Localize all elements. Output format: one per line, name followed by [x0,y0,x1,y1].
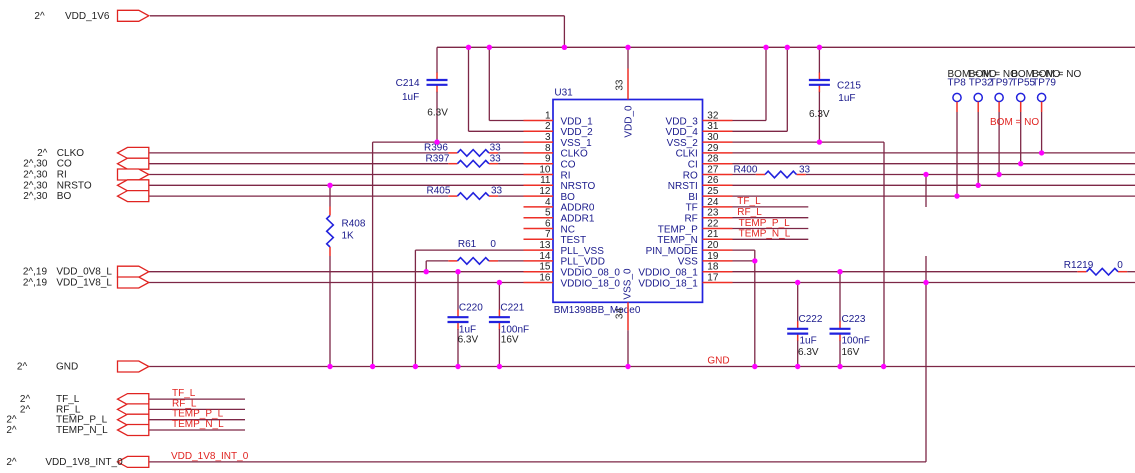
svg-text:TEMP_N_L: TEMP_N_L [56,425,108,436]
svg-text:24: 24 [707,197,719,208]
svg-text:5: 5 [545,208,551,219]
svg-text:VDDIO_08_1: VDDIO_08_1 [638,268,698,279]
svg-text:PLL_VSS: PLL_VSS [561,246,605,257]
svg-text:VDD_1V8_INT_0: VDD_1V8_INT_0 [171,451,249,462]
svg-text:R400: R400 [734,165,758,176]
svg-text:31: 31 [707,121,719,132]
svg-text:1: 1 [545,110,551,121]
svg-text:BO: BO [57,191,72,202]
svg-text:R405: R405 [427,186,451,197]
svg-text:1K: 1K [342,230,355,241]
svg-text:TF: TF [686,203,698,214]
svg-text:CLKO: CLKO [561,149,588,160]
svg-text:RI: RI [561,170,571,181]
svg-text:VDD_1V6: VDD_1V6 [65,11,110,22]
svg-text:VDD_4: VDD_4 [666,127,699,138]
svg-text:RF: RF [684,214,697,225]
svg-text:VDDIO_08_0: VDDIO_08_0 [561,268,621,279]
svg-text:0: 0 [490,239,496,250]
svg-text:ADDR0: ADDR0 [561,203,595,214]
svg-text:28: 28 [707,154,719,165]
svg-text:TEMP_N_L: TEMP_N_L [172,419,224,430]
svg-text:NRSTO: NRSTO [561,181,596,192]
svg-text:2^: 2^ [6,457,17,468]
svg-text:VDDIO_18_1: VDDIO_18_1 [638,278,698,289]
svg-text:10: 10 [539,164,551,175]
svg-text:6: 6 [545,218,551,229]
svg-text:19: 19 [707,251,719,262]
svg-text:2^,19: 2^,19 [23,267,48,278]
svg-text:26: 26 [707,175,719,186]
svg-text:TEST: TEST [561,235,587,246]
svg-text:C214: C214 [396,78,420,89]
svg-text:1uF: 1uF [402,92,419,103]
svg-text:16V: 16V [501,335,519,346]
svg-text:C220: C220 [459,303,483,314]
svg-text:2^,30: 2^,30 [23,159,48,170]
svg-text:2^,30: 2^,30 [23,191,48,202]
svg-text:33: 33 [491,186,503,197]
svg-text:4: 4 [545,197,551,208]
svg-text:VSS_2: VSS_2 [667,138,699,149]
svg-text:2^: 2^ [6,425,17,436]
svg-text:RO: RO [683,170,698,181]
svg-text:TEMP_N: TEMP_N [657,235,698,246]
svg-text:CLKO: CLKO [57,148,84,159]
svg-text:8: 8 [545,143,551,154]
svg-text:1uF: 1uF [459,324,476,335]
svg-text:PIN_MODE: PIN_MODE [646,246,699,257]
svg-text:33: 33 [799,165,811,176]
svg-text:BOM = NO: BOM = NO [990,117,1039,128]
svg-text:11: 11 [540,175,551,186]
svg-text:13: 13 [539,240,551,251]
svg-text:100nF: 100nF [501,324,529,335]
svg-text:22: 22 [707,218,719,229]
svg-text:32: 32 [707,110,719,121]
svg-text:C221: C221 [500,303,524,314]
svg-text:CI: CI [688,160,698,171]
svg-text:2: 2 [545,121,551,132]
svg-text:33: 33 [615,79,626,91]
svg-text:VDD_1V8_INT_0: VDD_1V8_INT_0 [45,457,123,468]
svg-text:9: 9 [545,154,551,165]
svg-text:C222: C222 [799,314,823,325]
svg-text:RF_L: RF_L [737,207,762,218]
svg-text:33: 33 [490,153,502,164]
svg-text:1uF: 1uF [800,336,817,347]
svg-text:34: 34 [615,308,626,320]
svg-text:TEMP_N_L: TEMP_N_L [739,229,791,240]
svg-text:30: 30 [707,132,719,143]
svg-text:C215: C215 [837,81,861,92]
svg-text:NRSTO: NRSTO [57,180,92,191]
svg-text:VDDIO_18_0: VDDIO_18_0 [561,278,621,289]
svg-text:VDD_0: VDD_0 [624,105,635,138]
svg-text:2^: 2^ [37,148,48,159]
svg-text:100nF: 100nF [842,336,870,347]
svg-text:VSS_1: VSS_1 [561,138,593,149]
svg-text:GND: GND [56,362,78,373]
svg-text:VSS_0: VSS_0 [622,268,633,300]
svg-text:18: 18 [707,262,719,273]
svg-text:BO: BO [561,192,576,203]
svg-text:23: 23 [707,208,719,219]
svg-text:14: 14 [539,251,551,262]
svg-text:VDD_1V8_L: VDD_1V8_L [56,278,112,289]
svg-text:VDD_3: VDD_3 [666,116,699,127]
svg-text:2^,30: 2^,30 [23,170,48,181]
svg-text:RI: RI [57,170,67,181]
svg-text:2^,19: 2^,19 [23,278,48,289]
svg-text:R408: R408 [342,219,366,230]
svg-text:0: 0 [1117,260,1123,271]
svg-text:CLKI: CLKI [676,149,698,160]
svg-text:2^,30: 2^,30 [23,180,48,191]
svg-text:VDD_0V8_L: VDD_0V8_L [56,267,112,278]
svg-text:R61: R61 [458,239,477,250]
svg-text:NC: NC [561,224,575,235]
svg-text:ADDR1: ADDR1 [561,214,595,225]
svg-text:TEMP_P_L: TEMP_P_L [739,218,791,229]
svg-text:NRSTI: NRSTI [668,181,698,192]
svg-text:29: 29 [707,143,719,154]
svg-text:TEMP_P: TEMP_P [658,224,698,235]
svg-text:17: 17 [707,272,719,283]
svg-text:R397: R397 [426,153,450,164]
svg-text:27: 27 [707,164,719,175]
svg-text:3: 3 [545,132,551,143]
svg-text:BOM = NO: BOM = NO [1032,69,1081,80]
svg-text:GND: GND [707,356,729,367]
svg-text:VDD_2: VDD_2 [561,127,594,138]
svg-text:2^: 2^ [34,11,45,22]
svg-text:25: 25 [707,186,719,197]
svg-text:33: 33 [490,143,502,154]
svg-text:VSS: VSS [678,257,698,268]
svg-text:2^: 2^ [17,362,28,373]
svg-text:BI: BI [688,192,697,203]
svg-text:16V: 16V [842,347,860,358]
svg-text:2^: 2^ [20,404,31,415]
svg-text:PLL_VDD: PLL_VDD [561,257,605,268]
svg-text:21: 21 [707,229,719,240]
svg-text:TF_L: TF_L [737,196,761,207]
svg-text:6.3V: 6.3V [809,109,830,120]
svg-text:CO: CO [57,159,72,170]
svg-text:U31: U31 [554,88,573,99]
svg-text:R1219: R1219 [1064,260,1094,271]
svg-text:C223: C223 [842,314,866,325]
svg-text:15: 15 [539,262,551,273]
svg-text:7: 7 [545,229,551,240]
svg-text:16: 16 [539,272,551,283]
svg-text:VDD_1: VDD_1 [561,116,594,127]
svg-text:6.3V: 6.3V [458,335,479,346]
svg-text:12: 12 [539,186,551,197]
svg-text:1uF: 1uF [838,93,855,104]
svg-text:CO: CO [561,160,576,171]
svg-text:6.3V: 6.3V [798,347,819,358]
svg-text:20: 20 [707,240,719,251]
svg-text:6.3V: 6.3V [427,108,448,119]
